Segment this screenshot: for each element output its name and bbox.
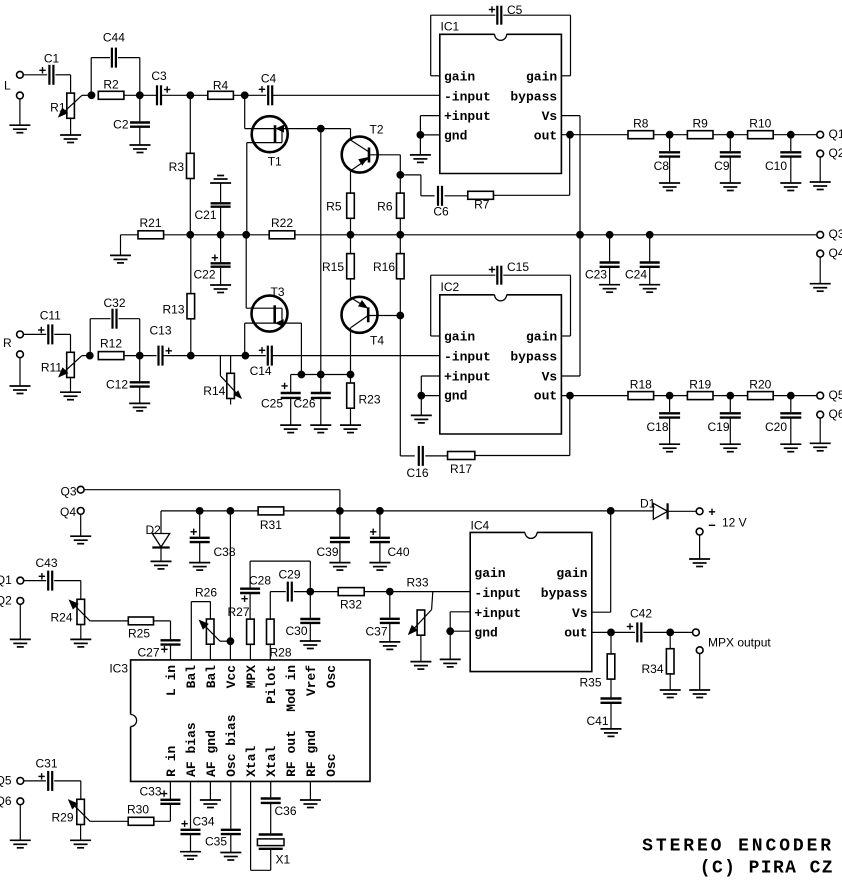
svg-text:C32: C32 xyxy=(103,296,125,310)
svg-text:Pilot: Pilot xyxy=(264,665,279,704)
svg-text:Q5: Q5 xyxy=(829,388,842,402)
svg-text:C40: C40 xyxy=(388,545,410,559)
svg-text:C42: C42 xyxy=(630,607,652,621)
svg-text:gain: gain xyxy=(444,70,475,85)
svg-text:R20: R20 xyxy=(749,378,771,392)
svg-text:X1: X1 xyxy=(276,853,291,867)
svg-text:Q4: Q4 xyxy=(60,505,76,519)
svg-text:C24: C24 xyxy=(625,268,647,282)
svg-text:Vcc: Vcc xyxy=(224,665,239,689)
svg-text:R31: R31 xyxy=(260,518,282,532)
svg-text:-input: -input xyxy=(444,89,491,104)
svg-text:R33: R33 xyxy=(406,576,428,590)
svg-text:C38: C38 xyxy=(214,545,236,559)
svg-text:Q6: Q6 xyxy=(829,407,842,421)
svg-text:C30: C30 xyxy=(285,624,307,638)
svg-text:gnd: gnd xyxy=(444,129,467,144)
svg-text:T1: T1 xyxy=(268,155,282,169)
svg-text:C23: C23 xyxy=(585,268,607,282)
svg-text:Q3: Q3 xyxy=(60,485,76,499)
svg-text:+input: +input xyxy=(474,606,521,621)
svg-text:R10: R10 xyxy=(749,117,771,131)
svg-text:R32: R32 xyxy=(340,597,362,611)
svg-text:C28: C28 xyxy=(249,574,271,588)
svg-text:+input: +input xyxy=(444,369,491,384)
svg-text:C21: C21 xyxy=(194,208,216,222)
svg-text:R2: R2 xyxy=(103,78,119,92)
svg-text:Q6: Q6 xyxy=(0,794,12,808)
svg-text:STEREO ENCODER: STEREO ENCODER xyxy=(642,837,834,857)
svg-text:C14: C14 xyxy=(250,364,272,378)
svg-text:Osc: Osc xyxy=(324,665,339,689)
svg-text:C18: C18 xyxy=(646,420,668,434)
svg-text:12 V: 12 V xyxy=(722,516,747,530)
svg-text:C19: C19 xyxy=(707,420,729,434)
svg-text:Xtal: Xtal xyxy=(264,745,279,776)
svg-text:C35: C35 xyxy=(205,835,227,849)
svg-text:C39: C39 xyxy=(316,545,338,559)
svg-text:Q4: Q4 xyxy=(829,246,842,260)
svg-text:C11: C11 xyxy=(40,309,61,323)
svg-text:C8: C8 xyxy=(654,159,670,173)
svg-text:C9: C9 xyxy=(714,159,730,173)
svg-text:Osc: Osc xyxy=(324,753,339,777)
svg-text:Bal: Bal xyxy=(184,665,199,689)
svg-text:C43: C43 xyxy=(35,556,57,570)
svg-text:-input: -input xyxy=(474,586,521,601)
svg-text:gain: gain xyxy=(444,330,475,345)
svg-text:C20: C20 xyxy=(765,420,787,434)
svg-text:out: out xyxy=(534,129,557,144)
svg-text:C15: C15 xyxy=(507,260,529,274)
svg-text:gain: gain xyxy=(556,566,587,581)
svg-text:Bal: Bal xyxy=(204,665,219,689)
svg-text:gain: gain xyxy=(474,566,505,581)
svg-text:R29: R29 xyxy=(51,811,73,825)
svg-text:R27: R27 xyxy=(227,605,249,619)
svg-text:R: R xyxy=(3,336,12,350)
svg-text:R4: R4 xyxy=(213,79,229,93)
svg-text:Vs: Vs xyxy=(542,109,558,124)
svg-text:Osc bias: Osc bias xyxy=(224,714,239,777)
svg-text:Q3: Q3 xyxy=(829,227,842,241)
svg-text:MPX: MPX xyxy=(244,665,259,689)
svg-text:C41: C41 xyxy=(586,714,608,728)
svg-text:R12: R12 xyxy=(100,337,122,351)
svg-text:(C) PIRA CZ: (C) PIRA CZ xyxy=(700,859,834,879)
svg-text:R15: R15 xyxy=(322,260,344,274)
svg-text:T3: T3 xyxy=(270,285,284,299)
svg-text:T4: T4 xyxy=(370,334,384,348)
svg-text:C1: C1 xyxy=(44,52,60,66)
svg-text:C27: C27 xyxy=(137,646,159,660)
svg-text:R5: R5 xyxy=(326,200,342,214)
svg-text:bypass: bypass xyxy=(510,89,557,104)
svg-text:out: out xyxy=(534,389,557,404)
svg-text:C34: C34 xyxy=(193,815,215,829)
svg-text:C44: C44 xyxy=(103,31,125,45)
svg-text:R21: R21 xyxy=(139,216,161,230)
svg-text:T2: T2 xyxy=(370,123,384,137)
svg-text:gnd: gnd xyxy=(444,389,467,404)
svg-text:Q2: Q2 xyxy=(0,594,12,608)
svg-text:C12: C12 xyxy=(106,378,128,392)
svg-text:C31: C31 xyxy=(35,757,57,771)
svg-text:C16: C16 xyxy=(406,466,428,480)
svg-text:R17: R17 xyxy=(450,462,472,476)
svg-text:R26: R26 xyxy=(195,586,217,600)
svg-text:C25: C25 xyxy=(261,397,283,411)
svg-text:C6: C6 xyxy=(433,205,449,219)
svg-text:C2: C2 xyxy=(113,118,129,132)
svg-text:AF bias: AF bias xyxy=(184,722,199,777)
svg-text:R28: R28 xyxy=(270,646,292,660)
svg-text:bypass: bypass xyxy=(541,586,588,601)
svg-text:Xtal: Xtal xyxy=(244,745,259,776)
svg-text:R18: R18 xyxy=(630,378,652,392)
svg-text:C3: C3 xyxy=(151,69,167,83)
svg-text:R23: R23 xyxy=(359,393,381,407)
svg-text:bypass: bypass xyxy=(510,349,557,364)
svg-text:R3: R3 xyxy=(169,160,185,174)
svg-text:Vref: Vref xyxy=(304,665,319,696)
svg-text:C36: C36 xyxy=(275,804,297,818)
svg-text:RF out: RF out xyxy=(284,730,299,777)
svg-text:Q5: Q5 xyxy=(0,774,12,788)
svg-text:R30: R30 xyxy=(127,803,149,817)
svg-text:R14: R14 xyxy=(203,384,225,398)
svg-text:Q1: Q1 xyxy=(0,573,12,587)
svg-text:out: out xyxy=(564,626,587,641)
svg-text:R8: R8 xyxy=(633,117,649,131)
svg-text:MPX output: MPX output xyxy=(708,636,771,650)
svg-text:gnd: gnd xyxy=(474,626,497,641)
svg-text:R24: R24 xyxy=(50,611,72,625)
svg-text:R13: R13 xyxy=(162,303,184,317)
svg-text:R9: R9 xyxy=(693,117,709,131)
svg-text:Mod in: Mod in xyxy=(284,665,299,712)
svg-text:IC3: IC3 xyxy=(109,662,128,676)
svg-text:C4: C4 xyxy=(261,72,277,86)
svg-text:C29: C29 xyxy=(278,568,300,582)
svg-text:L in: L in xyxy=(164,665,179,696)
svg-text:R34: R34 xyxy=(641,662,663,676)
svg-text:RF gnd: RF gnd xyxy=(304,730,319,777)
svg-text:Q2: Q2 xyxy=(829,146,842,160)
svg-text:Vs: Vs xyxy=(572,606,588,621)
svg-text:C13: C13 xyxy=(149,324,171,338)
svg-text:C37: C37 xyxy=(365,625,387,639)
svg-text:C33: C33 xyxy=(139,785,161,799)
svg-text:-input: -input xyxy=(444,349,491,364)
svg-text:IC1: IC1 xyxy=(441,20,460,34)
svg-text:R22: R22 xyxy=(271,216,293,230)
svg-text:gain: gain xyxy=(526,330,557,345)
svg-text:+input: +input xyxy=(444,109,491,124)
svg-text:AF gnd: AF gnd xyxy=(204,730,219,777)
svg-text:gain: gain xyxy=(526,70,557,85)
svg-text:L: L xyxy=(4,79,11,93)
svg-text:R25: R25 xyxy=(128,627,150,641)
svg-text:R6: R6 xyxy=(377,200,393,214)
svg-text:R7: R7 xyxy=(474,198,490,212)
svg-text:C22: C22 xyxy=(193,268,215,282)
svg-text:IC2: IC2 xyxy=(441,280,460,294)
svg-text:Q1: Q1 xyxy=(829,127,842,141)
svg-text:R in: R in xyxy=(164,745,179,776)
svg-text:R11: R11 xyxy=(41,361,62,375)
svg-text:R35: R35 xyxy=(579,676,601,690)
svg-text:R19: R19 xyxy=(689,378,711,392)
svg-text:Vs: Vs xyxy=(542,369,558,384)
svg-text:C10: C10 xyxy=(765,159,787,173)
svg-text:R16: R16 xyxy=(373,260,395,274)
svg-text:IC4: IC4 xyxy=(471,519,490,533)
svg-text:C26: C26 xyxy=(293,397,315,411)
